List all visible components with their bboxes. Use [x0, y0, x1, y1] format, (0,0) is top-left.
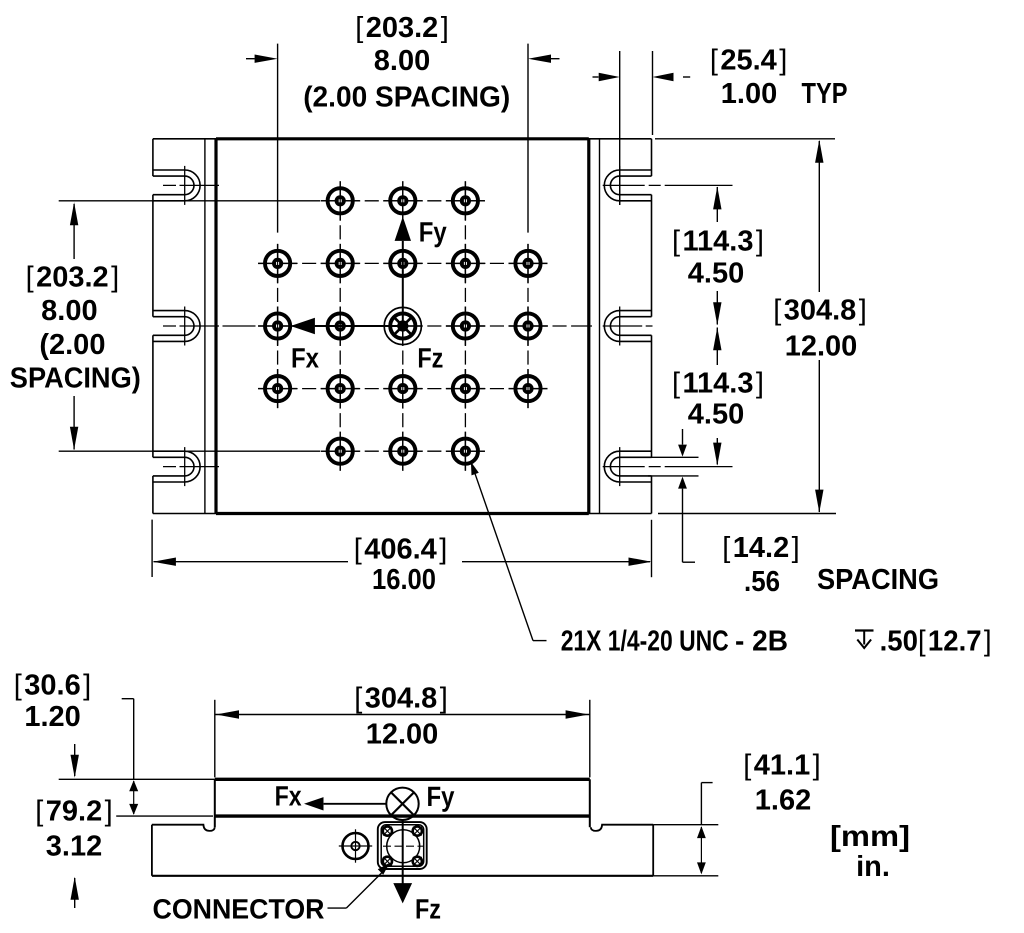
svg-text:4.50: 4.50 [688, 399, 744, 431]
svg-text:[ 114.3 ]: [ 114.3 ] [672, 226, 764, 258]
svg-text:1.20: 1.20 [24, 701, 80, 733]
svg-text:[ 30.6 ]: [ 30.6 ] [14, 670, 91, 702]
svg-text:[ 406.4 ]: [ 406.4 ] [354, 534, 448, 566]
svg-text:Fz: Fz [415, 894, 441, 925]
svg-text:(2.00: (2.00 [39, 329, 105, 361]
svg-text:SPACING): SPACING) [10, 362, 141, 394]
svg-text:8.00: 8.00 [374, 45, 430, 77]
svg-text:in.: in. [856, 851, 890, 883]
svg-text:[mm]: [mm] [830, 821, 910, 853]
svg-text:16.00: 16.00 [372, 564, 436, 596]
svg-text:[ 203.2 ]: [ 203.2 ] [355, 12, 449, 44]
svg-text:[ 25.4 ]: [ 25.4 ] [710, 44, 787, 76]
svg-text:Fy: Fy [419, 217, 447, 248]
svg-text:12.00: 12.00 [366, 719, 439, 751]
svg-text:1.00: 1.00 [721, 78, 777, 110]
svg-text:4.50: 4.50 [688, 258, 744, 290]
svg-text:Fz: Fz [417, 343, 443, 374]
svg-text:3.12: 3.12 [46, 831, 102, 863]
svg-text:[ 41.1 ]: [ 41.1 ] [743, 750, 820, 782]
svg-text:1.62: 1.62 [755, 785, 811, 817]
svg-text:8.00: 8.00 [41, 295, 97, 327]
svg-text:21X 1/4-20 UNC: 21X 1/4-20 UNC [561, 626, 729, 658]
svg-text:Fy: Fy [427, 781, 455, 812]
svg-text:Fx: Fx [275, 781, 302, 812]
svg-text:[ 304.8 ]: [ 304.8 ] [773, 295, 867, 327]
svg-text:12.00: 12.00 [785, 331, 858, 363]
svg-text:[ 203.2 ]: [ 203.2 ] [26, 261, 120, 293]
svg-text:.56: .56 [744, 566, 780, 598]
svg-text:[ 304.8 ]: [ 304.8 ] [354, 683, 448, 715]
svg-text:.50[ 12.7 ]: .50[ 12.7 ] [880, 626, 992, 658]
svg-text:- 2B: - 2B [735, 626, 788, 658]
svg-text:CONNECTOR: CONNECTOR [153, 894, 325, 925]
svg-text:[ 114.3 ]: [ 114.3 ] [672, 368, 764, 400]
svg-text:[ 79.2 ]: [ 79.2 ] [35, 796, 112, 828]
svg-text:Fx: Fx [291, 343, 319, 374]
svg-text:TYP: TYP [802, 78, 848, 110]
svg-text:(2.00 SPACING): (2.00 SPACING) [303, 81, 510, 113]
svg-text:[ 14.2 ]: [ 14.2 ] [722, 532, 799, 564]
svg-text:SPACING: SPACING [817, 564, 939, 596]
